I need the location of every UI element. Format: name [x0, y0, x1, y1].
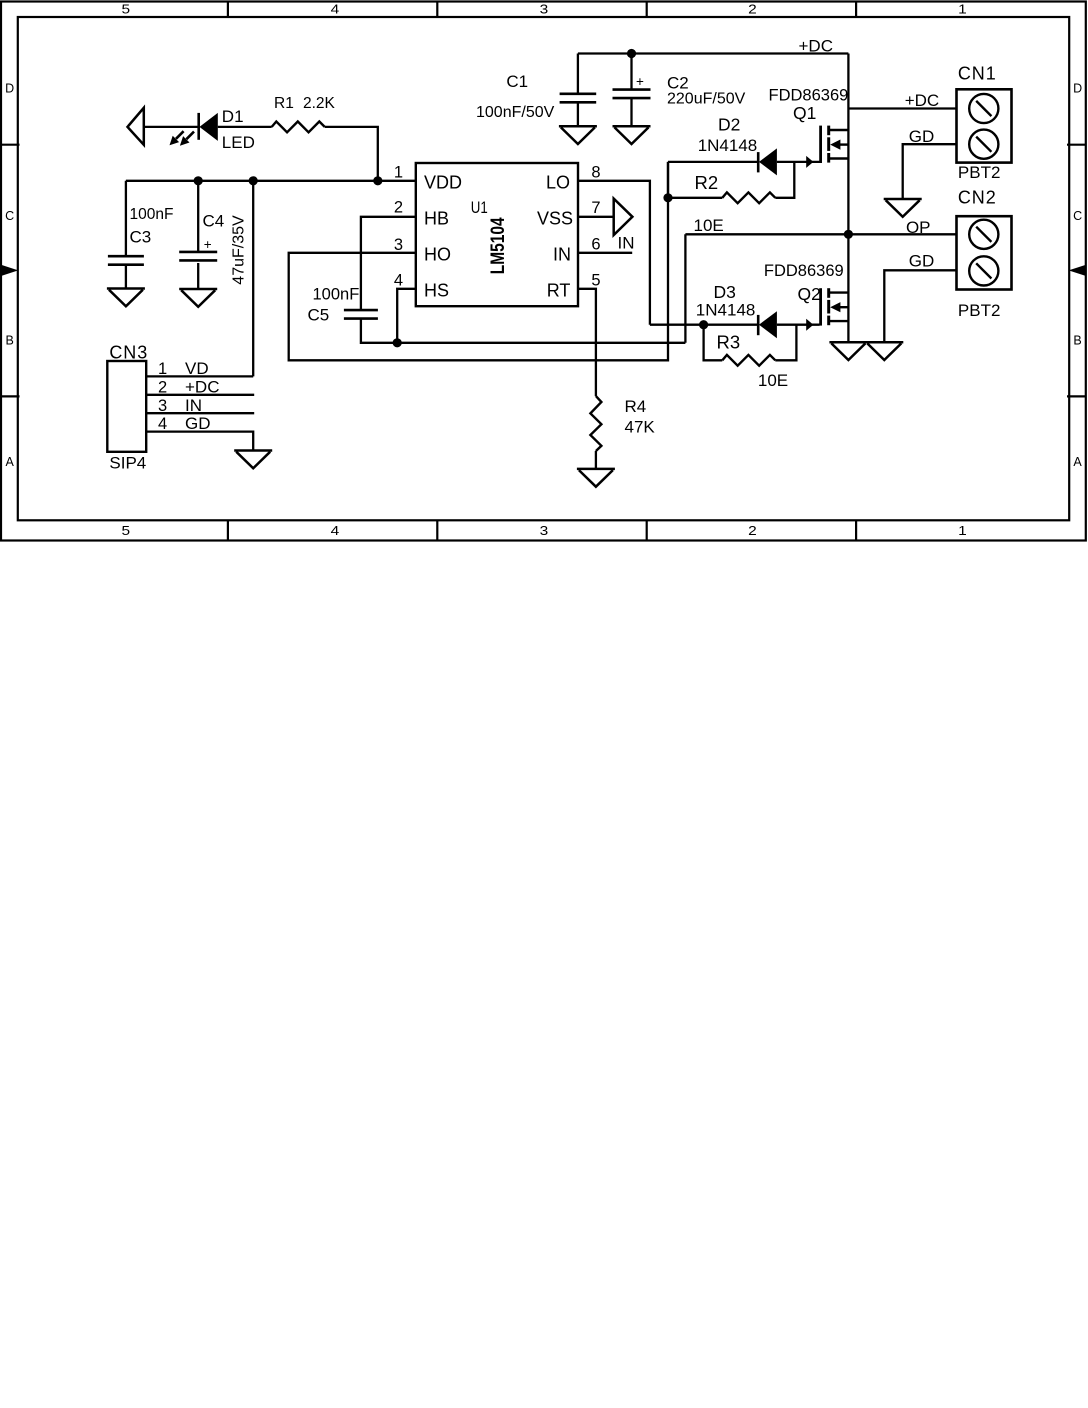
svg-text:6: 6 [591, 236, 600, 254]
sheet border inner frame [18, 17, 1069, 520]
svg-text:OP: OP [906, 218, 931, 237]
svg-text:D: D [5, 82, 14, 96]
ground C3 [107, 287, 145, 290]
connector CN2 [957, 216, 1012, 289]
wire IN stub [578, 252, 632, 254]
svg-text:3: 3 [158, 397, 167, 415]
frame tick top 2 [436, 2, 438, 18]
svg-text:+: + [204, 237, 212, 252]
svg-text:C4: C4 [203, 212, 225, 231]
LED D1 emission arrow 2 [186, 132, 194, 140]
svg-text:1: 1 [958, 3, 967, 17]
svg-text:IN: IN [185, 396, 202, 415]
svg-text:SIP4: SIP4 [109, 454, 146, 473]
svg-text:2: 2 [158, 378, 167, 396]
wire C3 lead [125, 181, 127, 257]
wire D1 to R1 [218, 126, 272, 128]
svg-text:C: C [5, 209, 14, 223]
svg-text:B: B [1073, 333, 1081, 347]
frame tick right D/C [1067, 144, 1086, 146]
svg-text:R4: R4 [625, 397, 647, 416]
frame tick bottom 4 [855, 520, 857, 540]
wire +DC top rail [578, 52, 849, 54]
ground C4 [179, 288, 217, 291]
wire RT to R4 [578, 289, 596, 396]
svg-text:PBT2: PBT2 [958, 163, 1001, 182]
node VDD-R1 [373, 176, 382, 185]
resistor R1 [272, 122, 325, 133]
svg-text:A: A [1073, 455, 1082, 469]
gate arrow Q2 [806, 319, 813, 331]
wire VSS stub [578, 216, 614, 218]
node VDD-CN3 [249, 176, 258, 185]
frame tick bottom 1 [227, 520, 229, 540]
wire CN1 GD [903, 144, 957, 199]
frame tick left B/A [1, 395, 20, 397]
svg-text:2: 2 [748, 3, 757, 17]
wire R4 to ground [595, 451, 597, 469]
wire R3 branch [704, 325, 723, 361]
capacitor C4 [179, 251, 217, 254]
svg-text:C1: C1 [506, 72, 528, 91]
svg-text:HB: HB [424, 209, 449, 229]
gate arrow Q1 [806, 156, 813, 168]
svg-text:RT: RT [547, 281, 571, 301]
node HS junction [393, 338, 402, 347]
svg-text:100nF: 100nF [130, 206, 174, 223]
svg-text:D2: D2 [718, 115, 740, 135]
CN1 terminal 2 [969, 130, 998, 159]
svg-text:3: 3 [540, 524, 549, 538]
node HO-R2 [663, 193, 672, 202]
svg-text:4: 4 [394, 272, 403, 290]
connector CN1 [957, 89, 1012, 162]
svg-text:C: C [1073, 209, 1082, 223]
svg-text:HO: HO [424, 245, 451, 265]
wire Q2 source to ground [847, 234, 849, 342]
wire C4 lead [197, 181, 199, 252]
resistor R4 [590, 396, 601, 451]
frame tick top 4 [855, 2, 857, 18]
capacitor C1 [560, 93, 597, 96]
wire CN3 pin2 [146, 394, 254, 396]
port arrow VSS [614, 199, 633, 235]
node OP junction [844, 230, 853, 239]
wire CN2 GD [884, 270, 956, 342]
svg-text:+DC: +DC [185, 377, 219, 396]
svg-text:HS: HS [424, 281, 449, 301]
wire D2 gate drive [668, 161, 757, 163]
CN2 terminal 2 [969, 256, 998, 285]
svg-text:FDD86369: FDD86369 [769, 87, 849, 105]
LED D1 [197, 113, 200, 140]
LED D1 emission arrow 1 [176, 131, 184, 139]
wire CN3 pin3 [146, 412, 254, 414]
svg-text:PBT2: PBT2 [958, 301, 1001, 320]
svg-text:Q1: Q1 [793, 103, 816, 123]
svg-text:D: D [1073, 82, 1082, 96]
svg-text:5: 5 [122, 524, 131, 538]
svg-text:+DC: +DC [905, 91, 939, 110]
svg-text:Q2: Q2 [798, 284, 821, 304]
svg-text:1N4148: 1N4148 [696, 301, 756, 320]
svg-text:100nF/50V: 100nF/50V [476, 104, 555, 121]
node C2 junction [627, 49, 636, 58]
wire HB to C5 [361, 217, 416, 310]
wire port to D1 [144, 126, 198, 128]
frame tick left D/C [1, 144, 20, 146]
svg-text:C3: C3 [130, 228, 152, 247]
CN2 terminal 1 [969, 220, 998, 249]
wire +DC to CN1 [848, 107, 956, 109]
frame tick right B/A [1067, 395, 1086, 397]
resistor R3 [722, 355, 775, 366]
svg-text:2: 2 [394, 199, 403, 217]
svg-text:1N4148: 1N4148 [698, 136, 758, 155]
svg-text:B: B [6, 333, 14, 347]
svg-text:1: 1 [958, 524, 967, 538]
ground C2 [613, 125, 651, 128]
svg-text:+DC: +DC [799, 37, 833, 56]
wire C1 lead [577, 54, 579, 94]
wire R2 riser [775, 162, 794, 198]
svg-text:47K: 47K [625, 418, 656, 437]
svg-text:CN1: CN1 [958, 64, 997, 84]
svg-text:VDD: VDD [424, 173, 462, 193]
svg-text:7: 7 [591, 199, 600, 217]
wire CN3 pin1 [146, 375, 253, 377]
ground C1 [559, 125, 597, 128]
svg-text:2.2K: 2.2K [303, 95, 336, 112]
capacitor C5 [344, 309, 378, 312]
wire D3 gate drive [650, 324, 757, 326]
svg-text:D3: D3 [714, 282, 736, 302]
svg-text:LO: LO [546, 173, 570, 193]
svg-text:R3: R3 [717, 332, 741, 353]
op-amp U1 box [416, 163, 578, 306]
svg-text:2: 2 [748, 524, 757, 538]
svg-text:VD: VD [185, 359, 209, 378]
svg-text:+: + [636, 74, 644, 89]
wire C2 lead [630, 54, 632, 90]
svg-text:C5: C5 [308, 306, 330, 325]
svg-text:A: A [6, 455, 15, 469]
svg-text:3: 3 [540, 3, 549, 17]
wire R1 to VDD rail [325, 127, 378, 181]
svg-text:GD: GD [909, 252, 935, 271]
svg-text:R2: R2 [695, 172, 719, 193]
svg-text:CN3: CN3 [109, 343, 148, 363]
wire HS pin to HS line [397, 289, 416, 343]
ground R4 [577, 468, 615, 471]
wire R3 riser [775, 325, 796, 361]
svg-text:4: 4 [331, 3, 340, 17]
wire OP rail [685, 233, 956, 235]
wire CN3 pin4 [146, 432, 253, 451]
frame tick top 3 [646, 2, 648, 18]
svg-text:LED: LED [222, 133, 255, 152]
diode D2 [757, 152, 760, 172]
connector CN3 [107, 361, 146, 452]
frame tick top 1 [227, 2, 229, 18]
capacitor C2 [613, 88, 651, 91]
svg-text:5: 5 [122, 3, 131, 17]
svg-text:4: 4 [158, 415, 167, 433]
svg-text:CN2: CN2 [958, 188, 997, 208]
svg-text:FDD86369: FDD86369 [764, 262, 844, 280]
diode D3 [757, 315, 760, 335]
wire LO stub [578, 181, 650, 325]
node VDD-C4 [194, 176, 203, 185]
svg-text:VSS: VSS [537, 209, 573, 229]
ground CN3 [234, 449, 272, 452]
ground CN2 GD [865, 341, 903, 344]
ground Q2 [829, 341, 867, 344]
frame centre arrow left [1, 265, 18, 276]
svg-text:1: 1 [394, 164, 403, 182]
svg-text:47uF/35V: 47uF/35V [231, 215, 248, 285]
svg-text:4: 4 [331, 524, 340, 538]
input port arrow [128, 108, 144, 145]
wire CN3 VD riser [252, 181, 254, 377]
svg-text:10E: 10E [694, 216, 724, 235]
wire C5 to HS line [361, 319, 686, 343]
transistor Q2 [819, 288, 822, 325]
sheet border outer frame [1, 2, 1086, 541]
svg-text:GD: GD [909, 127, 935, 146]
wire HS riser to OP [684, 234, 686, 342]
svg-text:D1: D1 [222, 107, 244, 126]
svg-text:10E: 10E [758, 371, 788, 390]
svg-text:LM5104: LM5104 [488, 217, 509, 274]
svg-text:1: 1 [158, 360, 167, 378]
svg-text:IN: IN [618, 234, 635, 253]
wire VDD rail [126, 180, 416, 182]
svg-text:3: 3 [394, 236, 403, 254]
svg-text:8: 8 [591, 164, 600, 182]
CN1 terminal 1 [969, 94, 998, 123]
frame tick bottom 2 [436, 520, 438, 540]
frame tick bottom 3 [646, 520, 648, 540]
svg-text:5: 5 [591, 272, 600, 290]
svg-text:GD: GD [185, 414, 211, 433]
transistor Q1 [819, 126, 822, 163]
capacitor C3 [108, 255, 144, 258]
svg-text:U1: U1 [471, 198, 488, 217]
svg-text:IN: IN [553, 245, 571, 265]
wire HO down-around [289, 162, 668, 360]
svg-text:220uF/50V: 220uF/50V [667, 91, 746, 108]
ground CN1 [884, 198, 922, 201]
svg-text:R1: R1 [274, 95, 294, 112]
frame centre arrow right [1069, 265, 1086, 276]
node D3-R3 [699, 320, 708, 329]
svg-text:100nF: 100nF [313, 286, 360, 304]
resistor R2 [722, 192, 775, 203]
wire +DC vertical Q1 [847, 54, 849, 235]
wire R2 branch [667, 162, 669, 198]
